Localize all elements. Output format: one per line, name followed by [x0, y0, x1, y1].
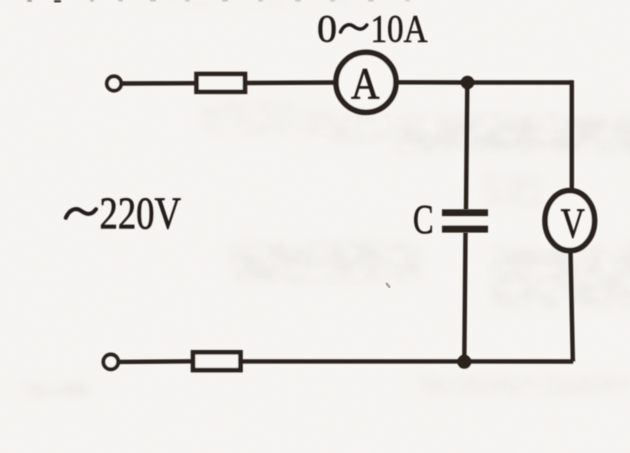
wire terminal to R1 [122, 81, 197, 86]
wire node A down to capacitor top plate [466, 83, 467, 210]
wire capacitor bottom plate down to node B [464, 233, 465, 362]
svg-text:V: V [561, 201, 585, 248]
wire R1 to ammeter [245, 80, 336, 85]
terminal (bottom-left) [103, 355, 118, 370]
svg-text:C: C [413, 196, 434, 242]
wire voltmeter to bottom-right corner [571, 251, 574, 362]
svg-text:A: A [351, 59, 380, 108]
resistor R1 (top) [197, 74, 246, 92]
voltmeter V [545, 191, 595, 251]
capacitor C1 plates [442, 209, 488, 232]
svg-text:10A: 10A [371, 7, 428, 51]
svg-text:220V: 220V [100, 189, 182, 239]
label ~220V : tilde [66, 209, 96, 218]
wire node A to top-right corner [465, 80, 572, 84]
ammeter A [336, 52, 396, 112]
label 0~10A : tilde [341, 25, 367, 32]
svg-text:0: 0 [317, 7, 337, 51]
terminal (top-left) [107, 76, 121, 90]
wire ammeter to node A [396, 80, 470, 85]
resistor R2 (bottom) [193, 352, 241, 370]
wire top-right corner down to voltmeter [570, 80, 574, 190]
wire R2 to node B and to bottom-right corner [241, 359, 574, 364]
node A (top junction dot) [461, 76, 475, 90]
wire terminal to R2 [119, 359, 194, 364]
node B (bottom junction dot) [457, 355, 471, 369]
